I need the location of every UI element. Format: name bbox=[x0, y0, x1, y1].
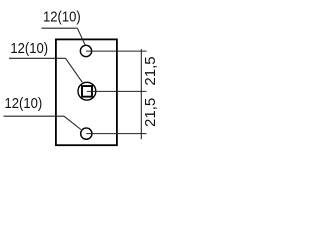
plate outline bbox=[56, 39, 117, 145]
hole middle square bbox=[82, 86, 92, 97]
underline of bottom label bbox=[4, 115, 65, 117]
svg-text:12(10): 12(10) bbox=[5, 94, 43, 111]
underline of top label bbox=[42, 27, 78, 29]
extension line from top hole bbox=[86, 50, 147, 52]
leader from bottom label to bottom hole bbox=[64, 116, 81, 129]
svg-text:12(10): 12(10) bbox=[10, 39, 48, 56]
hole middle circle bbox=[78, 82, 96, 100]
dimension line vertical bbox=[140, 49, 142, 139]
leader from middle label to middle hole bbox=[66, 58, 83, 82]
extension line from bottom hole bbox=[86, 133, 146, 135]
underline of middle label bbox=[9, 57, 66, 59]
extension line from middle hole bbox=[87, 90, 147, 92]
svg-text:21,5: 21,5 bbox=[142, 56, 159, 85]
leader from top label to top hole bbox=[77, 28, 85, 45]
hole bottom bbox=[81, 128, 92, 139]
svg-text:21,5: 21,5 bbox=[142, 98, 159, 127]
svg-text:12(10): 12(10) bbox=[43, 8, 81, 25]
hole top bbox=[80, 45, 91, 56]
